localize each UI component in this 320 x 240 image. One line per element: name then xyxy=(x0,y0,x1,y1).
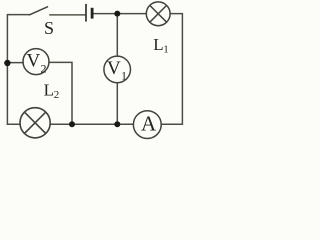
svg-text:L: L xyxy=(153,35,163,54)
wire: top-left horizontal to switch xyxy=(7,14,29,16)
junction node: left (V2 tap) xyxy=(4,60,10,66)
voltmeter V2 xyxy=(23,49,49,76)
ammeter A xyxy=(133,111,161,139)
svg-text:2: 2 xyxy=(54,89,60,101)
svg-text:2: 2 xyxy=(41,62,47,76)
wire: battery to L1 (top) xyxy=(93,13,146,15)
junction node: bottom (V1 drop) xyxy=(114,121,120,127)
wire: ammeter to bottom-right corner xyxy=(161,123,182,125)
wire: bottom middle (L2 to ammeter) xyxy=(50,123,133,125)
svg-text:V: V xyxy=(107,58,121,79)
wire: bottom-left (corner to L2) xyxy=(7,123,20,125)
lamp L1 xyxy=(146,2,170,26)
svg-text:A: A xyxy=(141,112,157,136)
wire: V1 down to bottom junction xyxy=(116,83,118,125)
svg-text:L: L xyxy=(44,81,54,100)
svg-text:1: 1 xyxy=(163,44,169,56)
battery long plate (+) xyxy=(85,4,87,22)
lamp L2 xyxy=(20,108,50,138)
wire: left junction to voltmeter V2 xyxy=(7,62,23,64)
switch S blade xyxy=(30,7,48,15)
svg-text:1: 1 xyxy=(121,68,127,82)
voltmeter V1 xyxy=(104,56,131,83)
svg-text:S: S xyxy=(44,18,54,38)
svg-text:V: V xyxy=(27,51,41,72)
junction node: top (battery/V1/L1) xyxy=(114,11,120,17)
wire: top junction down to V1 xyxy=(116,14,118,57)
battery short plate (-) xyxy=(91,8,94,19)
wire: V2 right side, drops to bottom wire xyxy=(49,62,72,124)
junction node: bottom (V2 drop) xyxy=(69,121,75,127)
wire: L1 to top-right corner xyxy=(170,14,182,125)
wire: left vertical xyxy=(6,15,8,125)
wire: switch to battery xyxy=(50,14,85,16)
